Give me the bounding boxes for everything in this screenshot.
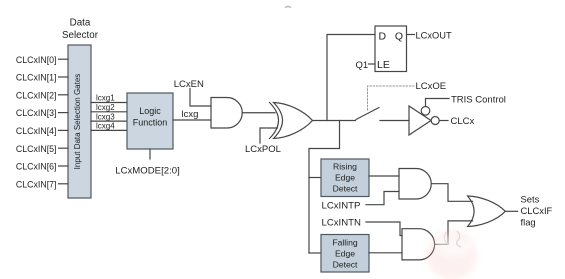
svg-text:D: D — [379, 30, 387, 42]
wire main (xor output) — [313, 120, 356, 122]
svg-text:LCxINTN: LCxINTN — [322, 218, 362, 229]
input CLCxIN[3] — [16, 108, 68, 118]
wire — [59, 165, 69, 167]
svg-text:Logic: Logic — [139, 106, 161, 116]
svg-text:Data: Data — [70, 17, 91, 28]
svg-text:lcxg3: lcxg3 — [96, 112, 115, 121]
svg-text:CLCxIN[5]: CLCxIN[5] — [16, 144, 57, 154]
wire — [59, 58, 69, 60]
svg-text:lcxg: lcxg — [182, 109, 199, 120]
svg-text:Q: Q — [395, 30, 403, 42]
back arc — [270, 103, 279, 139]
label Sets CLCxIF flag — [521, 194, 553, 228]
LCxINTP input — [322, 192, 400, 212]
watermark smudge top — [285, 7, 291, 8]
wire — [439, 120, 448, 122]
svg-text:Input Data Selection Gates: Input Data Selection Gates — [73, 74, 82, 170]
xor gate (polarity) — [270, 103, 313, 139]
wire — [407, 34, 415, 36]
wire to D flip-flop — [327, 35, 375, 121]
svg-text:Falling: Falling — [332, 238, 358, 248]
svg-text:CLCxIN[1]: CLCxIN[1] — [16, 73, 57, 83]
input data selection gates box — [68, 45, 91, 198]
input CLCxIN[5] — [16, 144, 68, 154]
body — [274, 103, 313, 139]
svg-text:lcxg2: lcxg2 — [96, 103, 115, 112]
svg-text:LCxOE: LCxOE — [416, 81, 447, 92]
svg-text:Q1: Q1 — [356, 60, 369, 71]
wire falling-to-and — [369, 252, 402, 254]
svg-text:LCxOUT: LCxOUT — [416, 30, 452, 40]
svg-text:lcxg4: lcxg4 — [96, 122, 115, 131]
svg-text:Detect: Detect — [333, 184, 358, 194]
wire — [366, 222, 402, 236]
wire stub to rising edge detect — [309, 177, 321, 179]
rising edge detect box — [321, 159, 369, 197]
wire — [59, 147, 69, 149]
svg-text:lcxg1: lcxg1 — [96, 94, 115, 103]
wire — [369, 63, 376, 65]
LCxINTN input — [322, 218, 403, 236]
svg-text:CLCxIN[7]: CLCxIN[7] — [16, 179, 57, 189]
input CLCxIN[4] — [16, 126, 68, 136]
svg-text:CLCx: CLCx — [451, 116, 475, 127]
wire stub to falling edge detect — [309, 252, 321, 254]
svg-text:CLCxIN[4]: CLCxIN[4] — [16, 126, 57, 136]
wire or output — [505, 210, 517, 212]
or gate interrupt — [468, 196, 506, 227]
wire andP-to-or — [432, 184, 473, 202]
wire lcxg4 — [91, 122, 127, 131]
LCxOUT output — [407, 30, 452, 40]
wire — [59, 112, 69, 114]
wire — [380, 120, 409, 122]
LCxMODE[2:0] input — [115, 149, 180, 177]
wire — [149, 149, 151, 159]
wire lcxg3 — [91, 112, 127, 121]
wire — [59, 129, 69, 131]
output bubble — [431, 117, 439, 125]
D flip-flop — [375, 26, 407, 72]
svg-text:Edge: Edge — [335, 249, 355, 259]
and gate U-enable — [211, 97, 242, 128]
input CLCxIN[1] — [16, 73, 68, 83]
falling edge detect box — [321, 235, 369, 273]
svg-text:CLCxIN[6]: CLCxIN[6] — [16, 162, 57, 172]
wire — [260, 128, 278, 143]
svg-text:LE: LE — [377, 59, 390, 71]
wire lcxg2 — [91, 103, 127, 112]
wire down-branch to edge detectors — [309, 121, 340, 254]
svg-text:LCxINTP: LCxINTP — [322, 200, 361, 211]
enable bubble — [421, 107, 430, 116]
LCxEN input — [174, 79, 211, 106]
input CLCxIN[7] — [16, 179, 68, 189]
switch — [356, 108, 409, 121]
svg-text:CLCxIN[2]: CLCxIN[2] — [16, 90, 57, 100]
LCxOE dotted control — [368, 81, 447, 110]
svg-text:CLCxIN[3]: CLCxIN[3] — [16, 108, 57, 118]
input CLCxIN[6] — [16, 162, 68, 172]
svg-text:Sets: Sets — [521, 194, 540, 205]
svg-text:LCxEN: LCxEN — [174, 79, 204, 90]
svg-text:LCxPOL: LCxPOL — [245, 144, 281, 155]
logic function box — [127, 93, 173, 149]
CLCx output — [439, 116, 474, 127]
blade — [356, 108, 379, 120]
label Data Selector — [62, 17, 99, 41]
wire — [190, 89, 211, 107]
LCxPOL input — [245, 128, 281, 155]
TRIS Control — [426, 95, 506, 107]
and gate interrupt-negative — [402, 229, 435, 260]
wire andN-to-or — [435, 221, 473, 244]
svg-text:flag: flag — [521, 217, 536, 228]
svg-text:CLCxIN[0]: CLCxIN[0] — [16, 55, 57, 65]
wire lcxg (logic function output) — [173, 109, 211, 120]
watermark blob bottom-right — [427, 230, 477, 279]
wire — [59, 94, 69, 96]
svg-text:Function: Function — [133, 118, 168, 128]
wire rising-to-and — [369, 175, 399, 177]
svg-text:Edge: Edge — [335, 173, 355, 183]
wire — [366, 192, 399, 205]
Q1 clock input — [356, 60, 376, 71]
wire — [59, 76, 69, 78]
svg-text:Rising: Rising — [333, 162, 357, 172]
wire — [426, 99, 450, 107]
input CLCxIN[2] — [16, 90, 68, 100]
wire lcxg1 — [91, 94, 127, 103]
svg-text:TRIS Control: TRIS Control — [451, 95, 506, 106]
svg-text:LCxMODE[2:0]: LCxMODE[2:0] — [115, 166, 180, 177]
wire and-to-xor — [242, 112, 275, 114]
svg-text:Detect: Detect — [333, 260, 358, 270]
svg-text:Selector: Selector — [62, 30, 99, 41]
input CLCxIN[0] — [16, 55, 68, 65]
wire — [59, 183, 69, 185]
tri-state buffer — [409, 106, 439, 135]
svg-text:CLCxIF: CLCxIF — [521, 205, 553, 216]
and gate interrupt-positive — [399, 169, 431, 200]
